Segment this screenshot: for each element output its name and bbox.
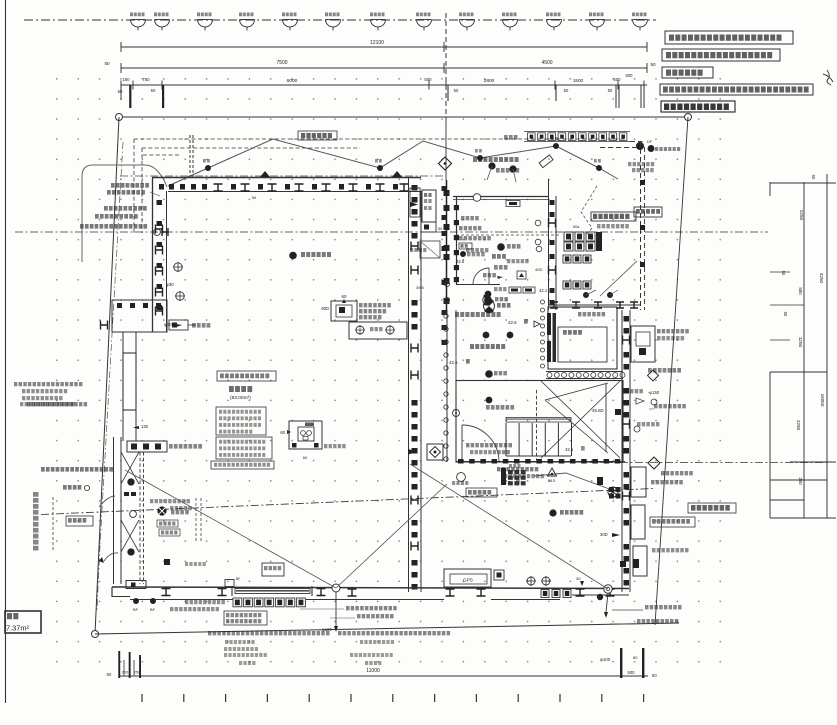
dashed pair right of annex (195, 498, 197, 541)
svg-text:DF: DF (647, 140, 653, 144)
hall door arc (473, 268, 489, 284)
svg-text:50a: 50a (573, 225, 580, 229)
note box smart-lock IOT (665, 31, 793, 44)
bottom dim left ticks (118, 651, 120, 678)
setback dashed west verticals (133, 139, 135, 233)
svg-text:500: 500 (626, 73, 634, 78)
mailbox grid (508, 470, 513, 474)
hall dashed ceiling line (456, 234, 560, 236)
west sliding door (123, 353, 136, 410)
guy wire diagonal SW (125, 470, 336, 588)
guy wire diagonal SE (410, 464, 608, 589)
dimension stub ticks below (120, 85, 122, 100)
svg-text:BF: BF (133, 607, 139, 612)
stair handrail hatch strip (506, 418, 571, 423)
riser small circles (444, 281, 449, 286)
svg-text:46.6D: 46.6D (592, 408, 604, 413)
garage interior crosshair vent 2 (176, 292, 184, 300)
top-right corner revision mark (823, 70, 833, 85)
boxed label water tank (650, 517, 695, 527)
stair treads (505, 423, 507, 456)
riser shaft heavy line (446, 180, 448, 310)
south wall inner segments (130, 599, 233, 601)
store small box (262, 563, 284, 576)
anchor dot embed label (290, 252, 297, 259)
garage west wall piers (157, 200, 163, 205)
east tall box 1 (631, 467, 646, 497)
west setback dash-dot companion (100, 142, 123, 545)
right boxed label base+350 (688, 503, 736, 513)
svg-text:130: 130 (141, 424, 149, 429)
base+350 label east (654, 404, 686, 408)
right centerline at y462 (dash-dot) (590, 462, 828, 464)
garage east wall piers (412, 185, 418, 191)
site boundary east diagonal line (655, 117, 688, 625)
EV west wall circle hatch (541, 300, 545, 304)
boxed label 1F wiring (66, 516, 93, 526)
right dim vertical line C (769, 372, 771, 518)
exit equipment box with cross (427, 444, 443, 460)
emergency light note box (634, 207, 662, 217)
svg-text:50: 50 (252, 195, 257, 200)
vent phi150 label (630, 389, 643, 393)
svg-text:16050: 16050 (820, 394, 825, 407)
horizontal centerline mid (dash-dot) (15, 231, 768, 233)
svg-text:500: 500 (613, 77, 621, 82)
site boundary corner node NE (685, 114, 692, 121)
garage interior crosshair vent 1 (174, 263, 182, 271)
pressure pump enclosure (631, 326, 655, 362)
garage equipment box wide (349, 322, 407, 339)
setback dashed line north (134, 138, 627, 140)
fire wall label 2 (651, 480, 683, 484)
stair room outline (456, 381, 623, 463)
south wall box row (233, 598, 242, 607)
south wall west step (126, 581, 146, 589)
garage north wall vent triangles (260, 171, 270, 177)
stair door arc (461, 425, 463, 462)
label fire EB-3400 (27, 402, 87, 406)
seismic wall label (578, 312, 605, 316)
svg-text:60: 60 (280, 430, 285, 435)
svg-text:50: 50 (781, 271, 786, 276)
svg-text:φ100: φ100 (600, 657, 611, 662)
note box EV pit airtight (660, 84, 813, 95)
left dashed line vertical (52, 497, 54, 551)
garage center spec text box 4 (211, 461, 274, 469)
corridor dashed feed zigzag (581, 186, 597, 235)
guy wire diagonal NE from gate (336, 484, 447, 588)
label fire circle (63, 485, 81, 490)
svg-text:φ30: φ30 (164, 322, 172, 327)
west annex X brace lower (121, 520, 139, 552)
svg-text:1500: 1500 (573, 78, 584, 83)
hall label door B (455, 312, 501, 317)
label base 2240 south (346, 606, 397, 610)
svg-text:50: 50 (107, 672, 112, 677)
svg-text:80: 80 (633, 655, 638, 660)
dot grid field (50, 72, 738, 664)
east tall box 3 (633, 546, 647, 576)
right dim vertical line B (826, 174, 828, 518)
svg-text:4500: 4500 (541, 60, 552, 66)
east pump circle 1 (608, 487, 618, 497)
south under-wall text rows (185, 600, 225, 604)
east small circles (634, 426, 640, 432)
exit door black bar (501, 468, 506, 485)
note box Tokyo zero-emission (662, 49, 780, 61)
svg-text:60: 60 (342, 294, 347, 299)
label shared door west (41, 467, 113, 472)
south long spec line right (338, 631, 450, 635)
east box connectors (633, 559, 639, 568)
svg-text:1250: 1250 (798, 337, 803, 348)
svg-text:60: 60 (303, 455, 308, 460)
svg-text:500: 500 (628, 670, 636, 675)
svg-text:GPS: GPS (463, 578, 473, 583)
svg-text:φ30: φ30 (166, 282, 174, 287)
svg-text:6000: 6000 (287, 78, 298, 84)
embed dot upper stair (486, 371, 493, 378)
south wall ibeams (162, 589, 171, 596)
stair landing dashed centerline (536, 390, 538, 460)
svg-text:200: 200 (122, 670, 129, 675)
svg-text:500: 500 (798, 287, 803, 295)
hall sign small box (506, 201, 520, 207)
svg-text:50: 50 (811, 175, 816, 180)
svg-text:42.1: 42.1 (539, 288, 548, 293)
svg-text:60D: 60D (321, 306, 329, 311)
label 1F wiring line (95, 214, 138, 219)
double dashed riser line (189, 135, 191, 180)
svg-text:2250: 2250 (796, 420, 801, 431)
svg-text:50: 50 (564, 88, 569, 93)
garage center spec text box 3 (216, 437, 272, 459)
meter box right of GPS (494, 570, 504, 580)
svg-text:50: 50 (608, 88, 613, 93)
svg-text:42.6: 42.6 (508, 320, 517, 325)
south crosshair pair (527, 577, 535, 585)
south-east gate node (604, 585, 612, 593)
svg-text:7500: 7500 (276, 60, 287, 66)
west annex junction dots (128, 479, 134, 485)
south gate node (332, 584, 340, 592)
south spec stack right (360, 640, 394, 644)
west annex tie marks (124, 492, 129, 496)
svg-text:42.5: 42.5 (456, 259, 465, 264)
hall top wall circle (473, 194, 481, 202)
south spec stack left (225, 640, 255, 644)
right dim ticks (770, 182, 836, 184)
grid bubbles row (131, 20, 648, 31)
east mini grid (609, 487, 614, 492)
left riser box pair (410, 188, 420, 217)
svg-text:BF: BF (236, 577, 240, 581)
hall north dim line (548, 304, 641, 306)
site boundary north line (119, 116, 688, 118)
garage north wall piers (159, 184, 164, 190)
EV room (548, 307, 617, 369)
east black rect (597, 477, 603, 485)
svg-text:50: 50 (118, 89, 123, 94)
svg-text:750: 750 (142, 77, 150, 82)
south wall outer line (112, 587, 629, 589)
garage north wall (152, 177, 421, 179)
stair diagonals (545, 383, 608, 400)
east diamond mid (648, 370, 659, 381)
label SAJs FC spec block west (14, 382, 82, 386)
svg-text:11000: 11000 (366, 668, 380, 674)
garage room name 5K (229, 386, 252, 392)
note box ZEH (662, 67, 713, 78)
fireproof wall label (648, 368, 681, 373)
stair room south wall (456, 461, 625, 463)
shoe area wire nodes (583, 292, 588, 297)
vertical label water depth (33, 492, 39, 551)
west annex dashed risers (139, 452, 141, 584)
stair room west wall circles (446, 310, 448, 462)
hall bottom dots (485, 291, 491, 297)
setback dashed line north2 (142, 147, 360, 149)
garage west wall (152, 177, 154, 332)
garage center spec text box 2 (216, 407, 266, 435)
top dimension line 7500 4500 (121, 67, 647, 69)
svg-text:BF: BF (150, 607, 156, 612)
label found depth 400 (104, 206, 147, 211)
hall knob circles (535, 220, 541, 226)
site boundary corner node NW (116, 114, 123, 121)
south wall door track (235, 589, 310, 594)
shoe rack cluster C (563, 281, 571, 289)
garage equipment box lower (289, 421, 322, 449)
label base 2240 SE gate (610, 623, 635, 625)
svg-text:12100: 12100 (370, 40, 384, 46)
EV door black bars (547, 313, 551, 335)
west annex double studs (113, 437, 115, 584)
hall bottom boxed gauges (494, 287, 507, 291)
entrance wire drop nodes (489, 163, 495, 169)
stair right landing vertical (605, 384, 607, 452)
label base +350 south (357, 614, 394, 618)
corridor east wall (548, 179, 550, 310)
right dim vertical line A (803, 182, 805, 518)
AC pipe label box (298, 131, 337, 140)
GPS box (444, 569, 491, 587)
garage east wall (408, 177, 410, 592)
svg-text:50: 50 (652, 673, 657, 678)
west annex X brace upper (121, 452, 139, 484)
yard embed anchor dot (550, 510, 556, 516)
garage equipment box upper (60D) (331, 301, 357, 321)
bottom dim line 11000 (120, 675, 648, 677)
west wall jog block (112, 300, 167, 332)
svg-text:30D: 30D (600, 532, 608, 537)
overhead service wire polyline (168, 139, 618, 186)
site boundary south line (95, 623, 679, 634)
stair south annotations (466, 443, 512, 447)
yard wire to pump (534, 473, 612, 490)
top centerline (dash-dot) (24, 19, 656, 21)
svg-text:50: 50 (104, 61, 110, 66)
label base+350 SE gate (612, 609, 643, 611)
label concern area (80, 224, 147, 229)
label GOP east (652, 548, 689, 552)
wire pole nodes (205, 165, 210, 170)
east diamond junction (648, 457, 660, 469)
shared sign label (637, 422, 659, 426)
svg-text:50: 50 (783, 312, 788, 317)
dashed equipment rect (420, 241, 440, 258)
shoe rack cluster A (564, 232, 573, 241)
hall fan symbol (484, 301, 495, 312)
south long spec line left (208, 631, 330, 635)
west annex stacked mini labels (157, 520, 178, 527)
garage north wall axis dash-dot (120, 175, 445, 177)
label base 2240 east (661, 471, 693, 475)
svg-text:30: 30 (576, 576, 581, 581)
black arrow into wall (410, 202, 418, 207)
exit circle symbol (457, 473, 466, 482)
upper hall fan dot (483, 296, 491, 304)
svg-text:50: 50 (650, 62, 656, 67)
west wall lower block 300LONG (127, 441, 167, 452)
setback dashed stub (143, 154, 179, 156)
top dimension line 12100 (121, 46, 647, 48)
east wall lower (621, 310, 623, 592)
wheel stopper note box (466, 488, 497, 497)
east tall box 2 (631, 505, 645, 539)
svg-text:(83.00m²): (83.00m²) (230, 395, 251, 401)
note box automatic fire alarm (661, 101, 735, 112)
south wall BF dots (133, 598, 138, 603)
riser diamond junction (439, 157, 452, 170)
east wall upper dashed outline (640, 141, 642, 310)
corridor wire diagonal (600, 261, 637, 296)
svg-text:-φ150: -φ150 (648, 390, 660, 395)
svg-text:39.5: 39.5 (416, 285, 425, 290)
svg-text:500: 500 (424, 77, 432, 82)
site boundary corner node SW (92, 631, 99, 638)
small box below riser (421, 222, 436, 232)
stair hall dots pair (483, 332, 489, 338)
bottom ruler ticks (141, 694, 143, 702)
store damper symbol (157, 506, 166, 515)
svg-text:2250: 2250 (799, 210, 804, 221)
south wall boxes right (541, 590, 549, 598)
svg-text:50: 50 (438, 227, 442, 231)
svg-text:7.37m²: 7.37m² (6, 624, 30, 633)
svg-text:26.5: 26.5 (548, 479, 555, 483)
lower sloped centerline (dash-dot) (41, 489, 653, 515)
west wall centerline node (154, 229, 161, 236)
svg-text:4250: 4250 (819, 273, 824, 284)
top dimension line subdivisions (121, 84, 647, 86)
centerline node circle west (130, 511, 137, 518)
store area box 7.37m2 (5, 611, 41, 633)
svg-text:50: 50 (151, 88, 156, 93)
south wall small box above (225, 580, 234, 587)
gas pipe curve from west (82, 165, 167, 262)
shoe rack cluster B (563, 255, 571, 263)
west annex curve hoses (99, 496, 115, 507)
culvert label (171, 510, 189, 514)
svg-text:42.5: 42.5 (565, 447, 574, 452)
stroller rack note box (591, 212, 636, 221)
label concrete base +100 (111, 183, 149, 188)
utility riser vertical line (445, 13, 447, 117)
svg-text:250: 250 (798, 477, 803, 485)
svg-text:42.5: 42.5 (449, 360, 458, 365)
garage center spec text box 1 (217, 371, 276, 381)
left page border line (5, 0, 7, 703)
svg-text:2800: 2800 (484, 78, 495, 84)
entrance door leaf angled (539, 155, 553, 168)
EV hall south wall circles row (546, 371, 623, 373)
hall interior annotation texts (461, 216, 479, 220)
site boundary west line (95, 117, 119, 634)
grid bubble labels (130, 13, 145, 17)
svg-text:50: 50 (454, 88, 459, 93)
south boxed note (224, 611, 267, 625)
vinyl tile note (628, 162, 654, 166)
bottom dim right ticks (620, 648, 622, 678)
svg-text:180: 180 (122, 77, 130, 82)
yard warning triangle (548, 468, 557, 476)
deck label (504, 135, 518, 140)
hall room outline (453, 196, 549, 198)
balcony deck box row (524, 131, 630, 133)
svg-text:250: 250 (134, 670, 141, 675)
entrance label door A (473, 157, 519, 162)
svg-text:40D: 40D (535, 267, 542, 272)
deck end service dots 150LONG (636, 142, 643, 149)
wall fixture 200LONG (169, 320, 188, 330)
riser shaft marks on garage east wall (442, 186, 447, 191)
